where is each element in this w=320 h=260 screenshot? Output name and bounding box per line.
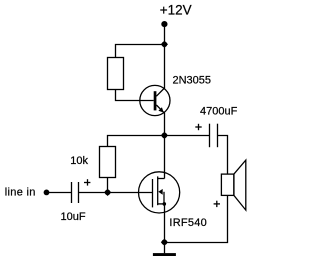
wire line-in to C1 [47, 192, 72, 194]
capacitor C1 10uF [72, 182, 79, 203]
resistor R2 10k [100, 147, 116, 178]
wire emitter to mid junction [164, 113, 166, 136]
svg-text:line in: line in [5, 186, 36, 198]
svg-text:IRF540: IRF540 [169, 217, 207, 229]
svg-text:10uF: 10uF [61, 211, 86, 223]
label line in [5, 186, 36, 198]
node mid junction diamond [161, 132, 168, 139]
svg-text:4700uF: 4700uF [200, 106, 238, 118]
capacitor C2 4700uF [210, 124, 218, 148]
svg-text:+12V: +12V [160, 3, 192, 18]
wire drain up to mid junction [164, 136, 166, 179]
label IRF540 [169, 217, 207, 229]
label C1 plus [84, 179, 90, 185]
label 10k [70, 155, 88, 167]
wire mid junction to C2 [165, 135, 210, 137]
wire +12V dot to top junction [164, 24, 166, 44]
label 2N3055 [173, 75, 212, 87]
power label +12V [160, 3, 192, 18]
wire top rail to R1 [116, 45, 165, 58]
node +12V terminal dot [161, 21, 167, 27]
wire C2 to speaker top [218, 136, 228, 175]
wire speaker bottom to ground junction [165, 195, 228, 242]
label 10uF [61, 211, 86, 223]
node ground junction diamond [161, 239, 168, 246]
speaker LS1 [221, 160, 245, 210]
resistor R1 [108, 58, 124, 90]
label C2 plus [195, 124, 201, 130]
node line-in terminal dot [44, 190, 50, 196]
svg-text:10k: 10k [70, 155, 88, 167]
wire R2 bottom to gate node [107, 178, 109, 193]
label 4700uF [200, 106, 238, 118]
transistor Q1 2N3055 [140, 85, 170, 115]
svg-text:2N3055: 2N3055 [173, 75, 212, 87]
wire source down to ground junction [164, 204, 166, 243]
wire C1 to gate node [79, 192, 108, 194]
wire R1 bottom to base node [116, 90, 154, 101]
ground [153, 243, 176, 257]
wire mid junction to R2 top [108, 136, 165, 147]
label speaker plus [214, 201, 220, 207]
node top junction [161, 41, 168, 48]
wire collector trunk [164, 45, 166, 89]
node gate junction [104, 189, 111, 196]
wire gate node to Q2 gate [108, 192, 153, 194]
transistor Q2 IRF540 [139, 172, 180, 213]
